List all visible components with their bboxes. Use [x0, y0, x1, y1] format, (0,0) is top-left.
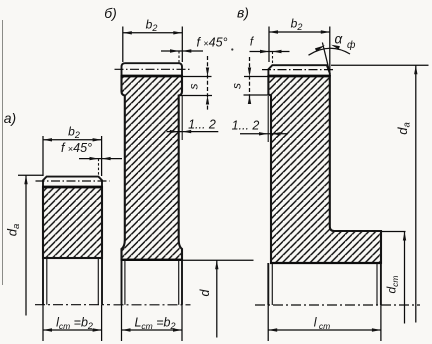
figure v: dimension b2 extension lines	[268, 27, 270, 63]
figure b: hub outer faces	[121, 260, 123, 305]
svg-text:l ст: l ст	[314, 316, 330, 332]
ink speck	[231, 48, 233, 50]
figure b: f chamfer extension dotted	[178, 51, 180, 63]
figure v: dimension b2 line	[269, 31, 330, 33]
figure v: axis dash-dot	[255, 304, 420, 306]
svg-text:da: da	[395, 122, 413, 135]
svg-text:b2: b2	[146, 18, 158, 34]
figure v: d_a dimension line	[415, 65, 417, 322]
figure b: dimension b2 extension lines	[122, 27, 124, 63]
svg-text:dст: dст	[385, 275, 401, 293]
figure b: s dimension ticks	[183, 76, 212, 78]
figure b: pitch dash-dot line	[115, 68, 193, 70]
figure b: d extension line	[183, 259, 254, 261]
svg-text:f: f	[250, 37, 255, 49]
figure b: axis dash-dot	[114, 304, 191, 306]
figure v: tooth band with chamfers	[268, 65, 329, 76]
figure v: chamfer angle line extended	[322, 43, 330, 74]
figure v: bore top thick line	[270, 262, 382, 264]
figure v: hatched body outline	[268, 76, 381, 263]
figure a: f chamfer extension dotted	[98, 159, 100, 176]
svg-text:f ×45°: f ×45°	[196, 36, 227, 50]
svg-text:b2: b2	[68, 125, 80, 141]
figure a: tooth band	[43, 177, 102, 187]
figure b: dimension b2 line	[123, 32, 183, 34]
figure v: f dimension line with outside arrows	[250, 51, 290, 53]
svg-text:da: da	[5, 224, 23, 237]
svg-text:в): в)	[237, 5, 249, 21]
figure b: s dimension line and outside arrows	[207, 56, 209, 111]
figure a: hub outer faces	[42, 258, 44, 305]
figure v: l_ct extension lines below axis	[267, 305, 269, 341]
figure b: bore chamfer lines	[124, 261, 126, 305]
figure a: dimension b2 line	[43, 139, 102, 141]
figure v: d_ct dimension line	[404, 232, 406, 324]
svg-text:1... 2: 1... 2	[188, 118, 216, 132]
figure a: l_ct dimension line	[43, 329, 102, 331]
figure b: 1...2 leader with outside arrows	[167, 131, 219, 133]
svg-text:lст =b2: lст =b2	[56, 316, 93, 332]
figure a: band root thick line	[42, 186, 103, 189]
figure b: tooth band with rounded corners	[122, 63, 183, 76]
figure b: rim face extension for 1...2	[181, 96, 183, 140]
figure v: bore chamfer lines	[271, 264, 273, 305]
figure a: l_ct extension lines below axis	[42, 305, 44, 341]
svg-text:а): а)	[4, 110, 16, 126]
figure b: f dimension line with outside arrows	[161, 50, 203, 52]
figure b: L_ct extension lines below axis	[121, 305, 123, 341]
figure a: f dimension line and arrows	[79, 158, 122, 160]
figure a: axis dash-dot	[35, 304, 110, 306]
figure b: L_ct dimension line	[122, 329, 183, 331]
figure v: l_ct dimension line	[268, 329, 381, 331]
svg-text:s: s	[230, 83, 244, 89]
figure a: d_a extension line	[18, 174, 43, 176]
figure v: alpha arc with arrows	[309, 48, 351, 55]
figure v: band root thick line	[268, 75, 331, 78]
figure v: 1...2 leader with outside arrows	[240, 133, 288, 135]
figure b: d dimension line	[216, 260, 218, 337]
figure b: hatched body outline	[122, 76, 183, 260]
svg-text:α: α	[335, 32, 344, 47]
figure v: f chamfer extension dotted	[272, 52, 274, 65]
svg-text:1... 2: 1... 2	[232, 119, 260, 133]
svg-text:b2: b2	[291, 17, 303, 33]
figure v: rim face extension for 1...2	[267, 96, 269, 142]
figure a: dimension b2 extension lines	[42, 136, 44, 176]
svg-text:б): б)	[104, 5, 117, 21]
figure a: hatched body	[43, 187, 102, 258]
svg-text:d: d	[198, 288, 212, 296]
svg-text:f ×45°: f ×45°	[61, 141, 92, 155]
figure v: d_a extension line	[331, 64, 429, 66]
svg-text:s: s	[187, 84, 201, 90]
svg-text:Lст =b2: Lст =b2	[134, 316, 175, 332]
figure b: bore top thick line	[121, 259, 183, 261]
figure v: d_ct extension line	[382, 231, 406, 233]
figure b: band root thick line	[121, 75, 183, 78]
svg-text:ф: ф	[347, 39, 356, 51]
figure v: pitch dash-dot line	[262, 69, 333, 71]
figure a: d_a dimension line	[25, 175, 27, 315]
figure v: s dimension line and outside arrows	[249, 57, 251, 103]
page edge line	[2, 20, 4, 285]
figure a: bore chamfer lines	[46, 259, 48, 305]
figure v: hub outer faces	[267, 263, 269, 305]
figure a: pitch dash-dot line	[36, 180, 110, 182]
figure v: s dimension ticks	[244, 76, 268, 78]
